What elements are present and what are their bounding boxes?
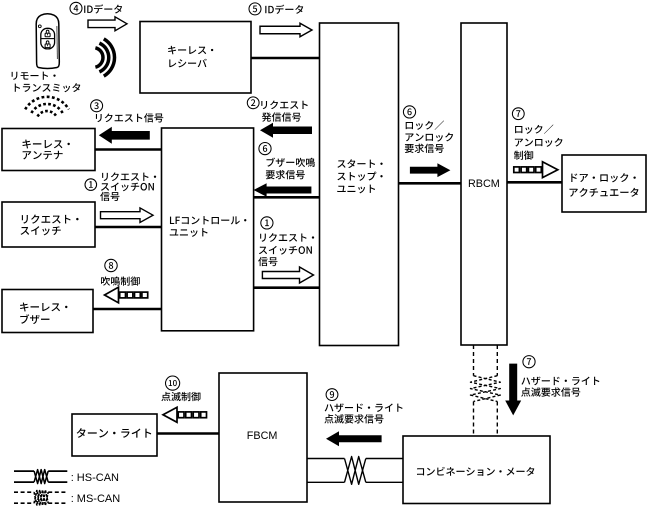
svg-text:FBCM: FBCM — [247, 430, 278, 442]
svg-text:: MS-CAN: : MS-CAN — [71, 493, 121, 505]
svg-text:: HS-CAN: : HS-CAN — [71, 472, 119, 484]
svg-text:RBCM: RBCM — [468, 178, 500, 190]
